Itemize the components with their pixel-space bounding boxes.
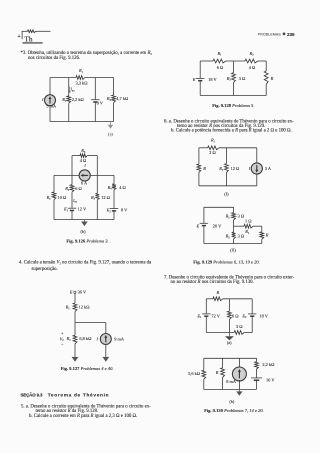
svg-text:(b): (b) <box>80 229 86 234</box>
svg-text:6 Ω: 6 Ω <box>232 313 239 318</box>
svg-text:18 V: 18 V <box>208 77 217 82</box>
svg-text:8 V: 8 V <box>121 208 128 213</box>
svg-text:4 Ω: 4 Ω <box>249 65 256 70</box>
svg-text:10 Ω: 10 Ω <box>58 195 67 200</box>
svg-text:(I): (I) <box>224 191 229 196</box>
svg-text:no ao resistor R nos circuitos: no ao resistor R nos circuitos da Fig. 9… <box>171 280 254 285</box>
svg-text:6 Ω: 6 Ω <box>75 186 82 191</box>
svg-text:20 V: 20 V <box>213 224 222 229</box>
svg-text:Fig. 9.126 Problema 3.: Fig. 9.126 Problema 3. <box>66 238 108 243</box>
svg-text:12 Ω: 12 Ω <box>101 195 110 200</box>
svg-text:12 V: 12 V <box>78 207 87 212</box>
svg-text:1 Ω: 1 Ω <box>245 219 252 224</box>
svg-text:(a): (a) <box>108 132 113 137</box>
svg-text:36 V: 36 V <box>78 289 87 294</box>
svg-text:4 Ω: 4 Ω <box>119 185 126 190</box>
svg-text:239: 239 <box>287 32 295 37</box>
svg-text:9 mA: 9 mA <box>114 336 125 341</box>
svg-text:E: E <box>69 289 73 294</box>
svg-text:+: + <box>17 34 20 40</box>
svg-text:72 V: 72 V <box>211 313 220 318</box>
svg-text:6 A: 6 A <box>81 180 88 185</box>
svg-text:2 Ω: 2 Ω <box>209 150 216 155</box>
svg-text:3 Ω: 3 Ω <box>238 234 245 239</box>
svg-text:Teorema de Thévenin: Teorema de Thévenin <box>48 392 110 397</box>
svg-text:3 Ω: 3 Ω <box>239 76 246 81</box>
svg-text:R: R <box>265 233 269 238</box>
svg-text:Fig. 9.127 Problemas 4 e 40.: Fig. 9.127 Problemas 4 e 40. <box>61 366 114 371</box>
svg-text:R: R <box>270 76 274 81</box>
svg-text:Fig. 9.128 Problema 5.: Fig. 9.128 Problema 5. <box>212 103 254 108</box>
svg-text:Th: Th <box>24 34 33 43</box>
svg-text:(a): (a) <box>227 340 232 345</box>
svg-text:3 Ω: 3 Ω <box>238 214 245 219</box>
svg-text:E: E <box>192 77 196 82</box>
svg-text:8 V: 8 V <box>97 100 104 105</box>
svg-text:8 mA: 8 mA <box>226 379 237 384</box>
svg-text:12 kΩ: 12 kΩ <box>79 305 90 310</box>
svg-text:b. Calcule a potência fornecid: b. Calcule a potência fornecida a R para… <box>171 129 292 134</box>
svg-text:R: R <box>202 166 206 171</box>
svg-text:superposição.: superposição. <box>32 267 58 272</box>
svg-text:nos circuitos da Fig. 9.126.: nos circuitos da Fig. 9.126. <box>28 56 80 61</box>
svg-text:18 V: 18 V <box>259 313 268 318</box>
svg-text:R: R <box>215 290 219 295</box>
svg-text:PROBLEMAS: PROBLEMAS <box>258 33 282 37</box>
svg-text:6 Ω: 6 Ω <box>217 65 224 70</box>
svg-text:4. Calcule a tensão V2​ no cir: 4. Calcule a tensão V2​ no circuito da F… <box>19 260 152 265</box>
svg-text:12 Ω: 12 Ω <box>231 166 240 171</box>
svg-text:SEÇÃO 9.3: SEÇÃO 9.3 <box>21 392 44 397</box>
svg-text:3 Ω: 3 Ω <box>236 324 243 329</box>
svg-text:E: E <box>196 224 200 229</box>
svg-text:R: R <box>215 370 219 375</box>
svg-text:5 mA: 5 mA <box>46 104 57 109</box>
svg-text:(II): (II) <box>230 248 236 253</box>
svg-text:(b): (b) <box>229 399 234 404</box>
svg-text:b. Calcule a corrente em R par: b. Calcule a corrente em R para R igual … <box>29 414 137 419</box>
svg-text:16 V: 16 V <box>266 377 275 382</box>
svg-text:3 A: 3 A <box>265 166 272 171</box>
